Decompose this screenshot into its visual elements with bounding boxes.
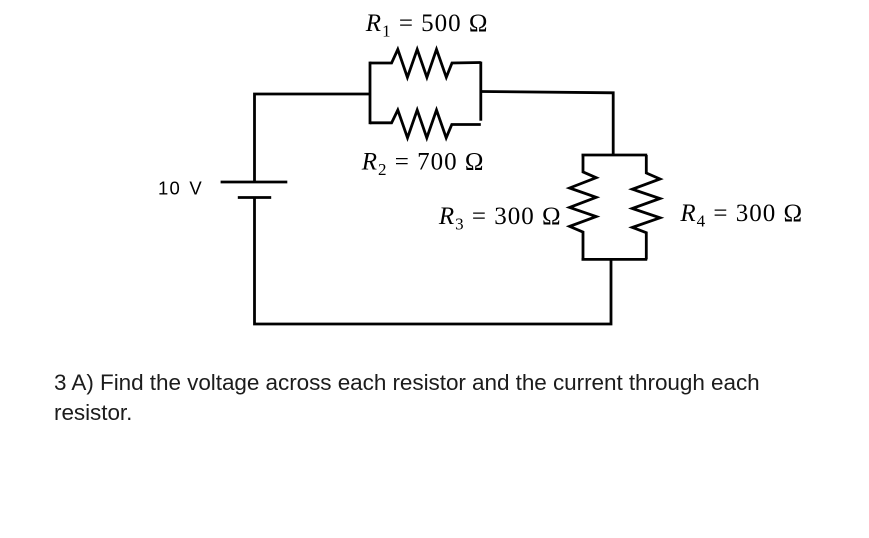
svg-text:R4 = 300 Ω: R4 = 300 Ω [679, 200, 803, 231]
svg-text:R3 = 300 Ω: R3 = 300 Ω [438, 203, 562, 234]
svg-text:10 V: 10 V [158, 178, 203, 199]
svg-text:R2 = 700 Ω: R2 = 700 Ω [361, 149, 485, 180]
svg-text:R1 = 500 Ω: R1 = 500 Ω [365, 10, 489, 41]
